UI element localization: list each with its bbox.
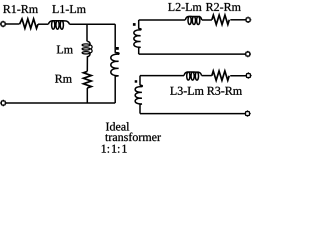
output 1 bottom rail bbox=[139, 53, 246, 55]
wire L1 to winding 1 bbox=[69, 23, 115, 25]
node junction at branch bbox=[86, 24, 88, 41]
wire R2 to terminal bbox=[230, 19, 246, 21]
wire L2 to R2 bbox=[202, 19, 212, 21]
label L2-Lm bbox=[168, 3, 201, 11]
terminal output 1 top bbox=[245, 17, 251, 23]
resistor Rm (vertical) bbox=[83, 71, 91, 88]
wire input top to R1 bbox=[5, 23, 19, 25]
inductor L2-Lm bbox=[185, 16, 202, 24]
resistor R1-Rm bbox=[20, 19, 39, 29]
inductor L3-Lm bbox=[184, 72, 202, 80]
terminal input top bbox=[0, 21, 6, 27]
label R2-Rm bbox=[206, 3, 241, 11]
winding W2 lead top bbox=[138, 20, 140, 29]
wire Rm to bottom rail bbox=[86, 88, 88, 103]
wire R1 to L1 bbox=[38, 23, 48, 25]
winding W1 lead top bbox=[114, 24, 116, 53]
winding W3 lead top bbox=[139, 76, 141, 86]
label R3-Rm bbox=[207, 87, 242, 95]
label L3-Lm bbox=[170, 87, 203, 95]
winding W3 lead bottom bbox=[139, 104, 141, 114]
terminal output 1 bottom bbox=[245, 51, 251, 57]
label L1-Lm bbox=[52, 5, 85, 13]
output 2 bottom rail bbox=[140, 113, 245, 115]
winding W1 lead bottom bbox=[114, 76, 116, 103]
label Rm bbox=[55, 75, 72, 83]
label R1-Rm bbox=[3, 5, 38, 13]
label Lm bbox=[57, 46, 73, 54]
inductor Lm (vertical) bbox=[82, 41, 92, 71]
terminal output 2 bottom bbox=[244, 110, 250, 116]
terminal input bottom bbox=[0, 100, 6, 106]
resistor R2-Rm bbox=[212, 15, 229, 24]
winding W3 polarity dot bbox=[135, 80, 138, 83]
label transformer bbox=[105, 133, 161, 142]
wire R3 to terminal bbox=[230, 75, 246, 77]
label 1:1:1 bbox=[102, 145, 127, 153]
inductor L1-Lm bbox=[48, 21, 69, 30]
winding W2 polarity dot bbox=[133, 23, 136, 26]
bottom rail left bbox=[5, 102, 115, 104]
output 2 top rail bbox=[140, 75, 184, 77]
resistor R3-Rm bbox=[212, 71, 229, 80]
winding W1 polarity dot bbox=[116, 47, 119, 50]
terminal output 2 top bbox=[245, 72, 251, 78]
wire L3 to R3 bbox=[202, 75, 212, 77]
output 1 top rail bbox=[139, 19, 186, 21]
winding W2 coil bbox=[134, 29, 141, 48]
winding W1 coil bbox=[111, 53, 119, 76]
winding W3 coil bbox=[135, 85, 142, 104]
winding W2 lead bottom bbox=[138, 47, 140, 54]
label Ideal bbox=[106, 122, 129, 130]
